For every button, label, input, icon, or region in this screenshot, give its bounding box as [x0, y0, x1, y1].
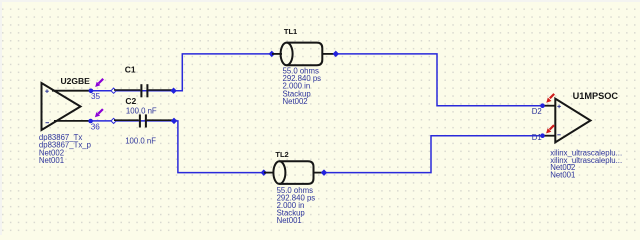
pin junction dot D2 — [540, 103, 545, 108]
svg-text:C1: C1 — [125, 64, 136, 74]
probe arrow pin36 (purple) — [95, 109, 103, 117]
wire net001 bottom: pin36 to C2 to riser to TL2 — [92, 121, 264, 173]
transmission line TL2 cylinder — [273, 161, 313, 184]
node diamond (open) on net002 — [111, 88, 116, 93]
transmission line TL1 cylinder — [281, 43, 323, 66]
TL2 right diamond — [321, 170, 327, 176]
pin junction dot 36 — [88, 119, 93, 124]
svg-text:Net001: Net001 — [39, 156, 64, 165]
U1MPSOC pin D1 stub — [543, 135, 557, 137]
svg-text:35: 35 — [91, 92, 101, 101]
wire net001: TL2 to U1MPSOC D1 — [324, 136, 543, 173]
svg-text:C2: C2 — [125, 96, 136, 106]
junction diamond after C2 — [171, 118, 177, 124]
junction diamond after C1 — [171, 88, 177, 94]
TL1 left diamond — [269, 51, 275, 57]
U2GBE pin 35 stub — [52, 90, 91, 92]
svg-text:Net001: Net001 — [277, 216, 302, 225]
svg-text:100.0 nF: 100.0 nF — [125, 136, 156, 145]
driver U2GBE triangle — [42, 83, 81, 130]
svg-text:36: 36 — [91, 122, 101, 131]
svg-text:U2GBE: U2GBE — [61, 76, 91, 86]
minus mark in U2GBE — [46, 122, 50, 124]
U2GBE pin 36 stub — [54, 120, 91, 122]
svg-text:Net001: Net001 — [550, 171, 575, 180]
svg-text:100.0 nF: 100.0 nF — [126, 107, 157, 116]
svg-text:TL2: TL2 — [275, 150, 288, 159]
TL2 left stub — [264, 172, 274, 174]
TL1 right diamond — [333, 51, 339, 57]
window border top — [0, 0, 640, 2]
plus mark in U2GBE — [45, 89, 49, 93]
probe arrow pin35 (purple) — [95, 79, 103, 87]
TL2 left diamond — [261, 170, 267, 176]
U1MPSOC pin D2 stub — [543, 105, 557, 107]
window border left — [0, 0, 2, 235]
svg-text:U1MPSOC: U1MPSOC — [573, 91, 619, 101]
probe arrow D1 (red) — [546, 125, 554, 133]
TL1 left stub — [272, 53, 282, 55]
TL2 right stub — [314, 172, 324, 174]
pin junction dot 35 — [89, 89, 94, 94]
TL1 right stub — [322, 53, 335, 55]
wire net002: TL1 to U1MPSOC D2 — [336, 54, 543, 106]
node diamond (open) on net001 — [111, 118, 116, 123]
svg-text:TL1: TL1 — [284, 27, 297, 36]
svg-text:D1: D1 — [532, 133, 542, 142]
receiver U1MPSOC triangle — [555, 99, 590, 143]
probe arrow D2 (red) — [546, 94, 554, 103]
plus mark in U1MPSOC — [557, 105, 561, 109]
capacitor C1 — [114, 84, 173, 97]
svg-text:Net002: Net002 — [283, 97, 308, 106]
wire net002 top: pin35 to C1 to riser to TL1 — [92, 54, 543, 173]
pin junction dot D1 — [540, 133, 545, 138]
capacitor C2 — [114, 114, 174, 127]
svg-text:D2: D2 — [532, 107, 542, 116]
minus mark in U1MPSOC — [557, 134, 560, 136]
